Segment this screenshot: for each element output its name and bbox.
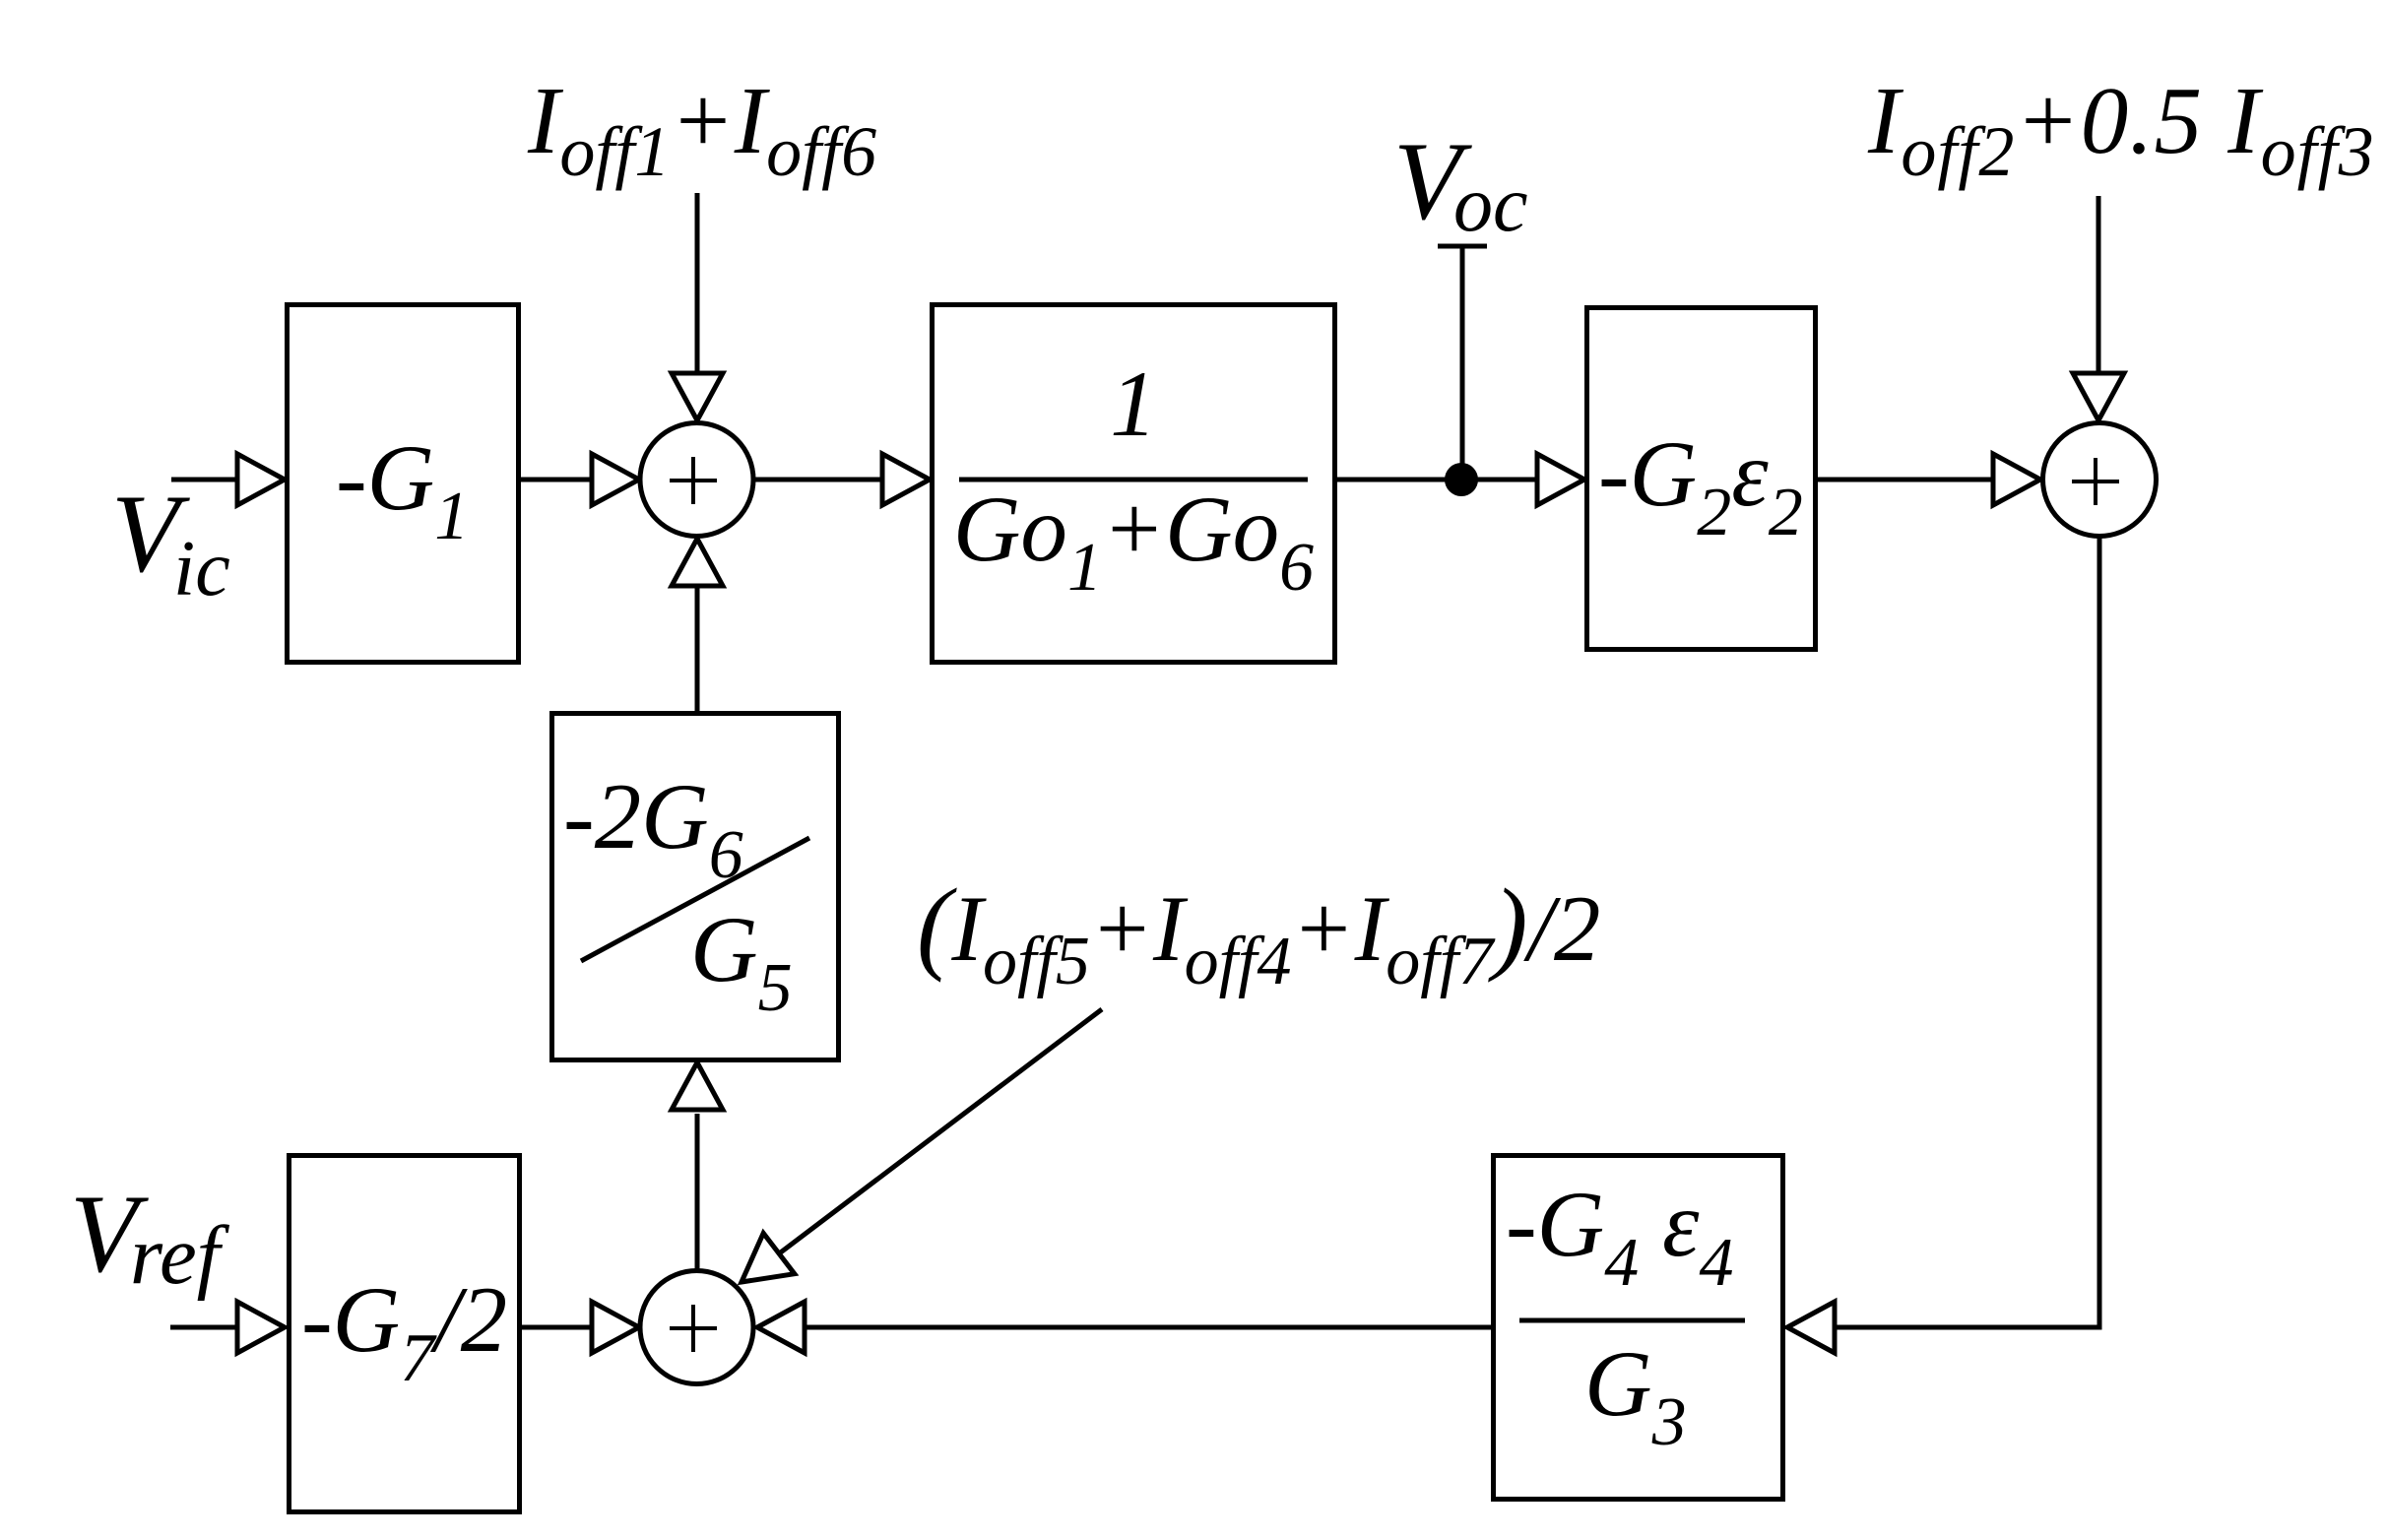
wire Vref input — [170, 1325, 243, 1330]
wire Ioff2 into sum2 — [2097, 196, 2101, 376]
wire block3 to sum2 — [1818, 478, 1997, 482]
wire Vic input — [171, 478, 243, 482]
wire block6 to sum3 — [805, 1325, 1491, 1330]
block -G4e4/G3 — [1494, 1156, 1783, 1500]
wire block2 to block3 — [1337, 478, 1542, 482]
summing junction sum1 — [640, 423, 753, 537]
wire G7 to sum3 — [522, 1325, 595, 1330]
block -G7/2 — [290, 1156, 520, 1512]
block -2G6/G5 — [552, 714, 839, 1060]
wire G1 to sum1 — [521, 478, 595, 482]
wire sum2 down and left to block6 — [1836, 537, 2099, 1327]
wire Ioff5 group into sum3 — [778, 1009, 1102, 1254]
wire Voc tap — [1438, 244, 1487, 249]
wire Ioff1 into sum1 — [695, 193, 700, 376]
wire sum1 to block2 — [753, 478, 889, 482]
node Voc junction dot — [1445, 463, 1478, 496]
block -G2e2 — [1587, 308, 1816, 650]
block 1/(Go1+Go6) — [933, 305, 1335, 663]
svg-text:1: 1 — [1110, 352, 1157, 456]
wire block4 to sum1 — [695, 586, 700, 711]
wire sum3 up to block4 — [695, 1114, 700, 1270]
summing junction sum3 — [640, 1271, 753, 1384]
summing junction sum2 — [2043, 423, 2157, 537]
block -G1 — [288, 305, 519, 663]
